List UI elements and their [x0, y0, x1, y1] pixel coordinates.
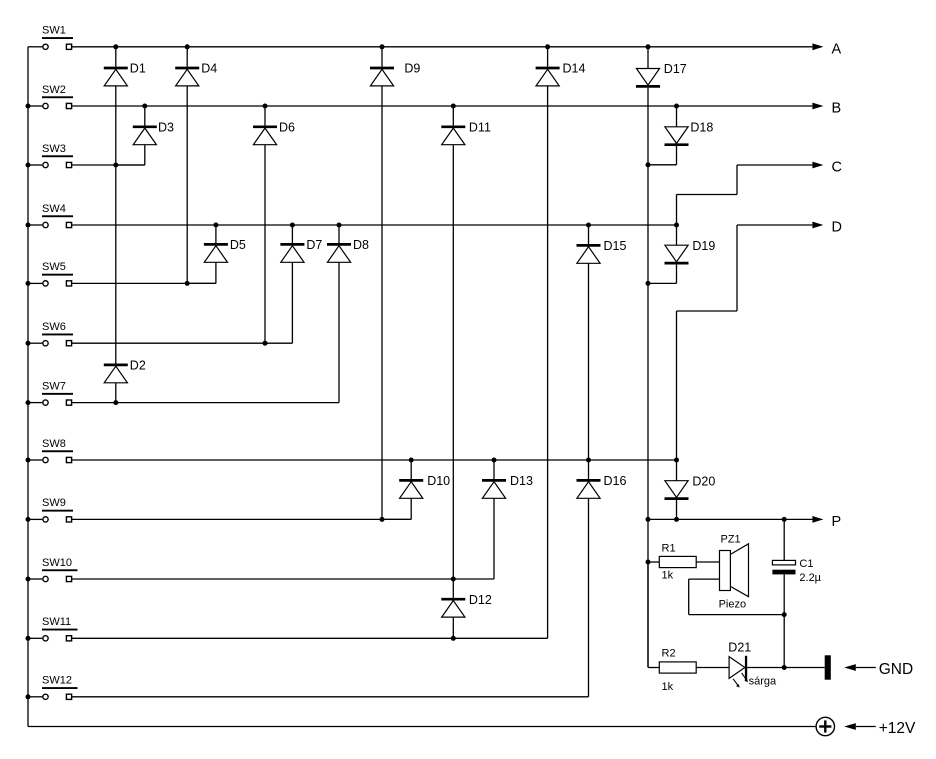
label D16 — [604, 474, 627, 488]
junction P column / R1 — [646, 560, 651, 565]
svg-text:D8: D8 — [353, 238, 369, 252]
label D15 — [604, 239, 627, 253]
svg-text:SW4: SW4 — [42, 203, 66, 215]
junction SW11 row / D12 anode / D14 — [451, 636, 456, 641]
diode D7 — [280, 225, 304, 343]
svg-text:SW7: SW7 — [42, 380, 66, 392]
node B output arrow — [812, 103, 823, 110]
LED D21 — [729, 656, 825, 688]
wire row SW4 (to D19 node) — [72, 224, 677, 226]
junction net P / C1 — [782, 517, 787, 522]
junction net P / D20 cathode — [674, 517, 679, 522]
junction row B / D18 — [674, 104, 679, 109]
svg-text:D4: D4 — [201, 62, 217, 76]
svg-text:A: A — [832, 41, 842, 57]
svg-text:D9: D9 — [404, 62, 420, 76]
junction bus / SW2 — [26, 104, 31, 109]
label D4 — [201, 62, 217, 76]
junction SW8 row / D15-D16 — [586, 458, 591, 463]
junction bus / SW8 — [26, 458, 31, 463]
node C output arrow — [812, 162, 823, 169]
label D2 — [130, 359, 146, 373]
label D11 — [469, 121, 491, 135]
svg-text:C1: C1 — [799, 558, 813, 570]
svg-text:D2: D2 — [130, 359, 146, 373]
resistor R1 — [648, 556, 720, 567]
diode D16 — [577, 460, 601, 697]
svg-text:D17: D17 — [664, 62, 687, 76]
label D20 — [692, 474, 715, 488]
svg-text:SW9: SW9 — [42, 497, 66, 509]
wire row SW5 — [72, 282, 216, 284]
junction SW4 row / D7 — [290, 223, 295, 228]
junction row B / D11 — [451, 104, 456, 109]
junction bus / SW3 — [26, 163, 31, 168]
junction SW5 row / D4-D5 anodes — [185, 281, 190, 286]
svg-text:2.2µ: 2.2µ — [799, 572, 821, 584]
svg-text:D14: D14 — [563, 62, 586, 76]
switch SW3 — [28, 162, 72, 167]
wire row SW11 — [72, 637, 548, 639]
node D output arrow — [812, 222, 823, 229]
wire PZ1 bottom terminal to C1 column — [689, 579, 785, 615]
label R2 — [662, 647, 676, 659]
junction bus / SW4 — [26, 223, 31, 228]
svg-text:SW11: SW11 — [42, 616, 71, 628]
switch SW8 — [28, 457, 72, 462]
svg-text:GND: GND — [879, 661, 913, 678]
diode D6 — [253, 106, 277, 343]
svg-text:D15: D15 — [604, 239, 627, 253]
label D12 — [469, 593, 492, 607]
junction SW4 row / D8 — [337, 223, 342, 228]
label C1 — [799, 558, 813, 570]
diode D14 — [536, 47, 560, 639]
label SW5 — [42, 261, 73, 275]
junction bus / SW5 — [26, 281, 31, 286]
label D7 — [306, 238, 322, 252]
svg-text:SW10: SW10 — [42, 557, 72, 569]
switch SW4 — [28, 222, 72, 227]
junction row A / D1 — [113, 44, 118, 49]
junction row B / D6 — [263, 104, 268, 109]
svg-text:D20: D20 — [692, 474, 715, 488]
junction SW7 row / D2 anode — [113, 400, 118, 405]
diode D4 — [175, 47, 199, 284]
label PZ1 — [721, 534, 741, 546]
svg-text:SW1: SW1 — [42, 25, 66, 37]
label SW2 — [42, 84, 73, 98]
diode D8 — [327, 225, 351, 403]
diode D10 — [382, 460, 423, 519]
label node B — [832, 101, 842, 117]
label R1 — [662, 542, 676, 554]
junction SW9 row / D9-D10 anodes — [380, 517, 385, 522]
label R1 value 1k — [662, 570, 674, 582]
switch SW12 — [28, 694, 72, 699]
svg-text:D: D — [832, 220, 842, 236]
svg-text:1k: 1k — [662, 681, 674, 693]
diode D20 — [665, 460, 689, 519]
junction bus / SW10 — [26, 577, 31, 582]
label D17 — [664, 62, 687, 76]
junction SW4 row / D19 / net C — [674, 223, 679, 228]
wire row SW6 — [72, 342, 293, 344]
label D14 — [563, 62, 586, 76]
switch SW1 — [28, 44, 72, 49]
diode D12 — [441, 579, 465, 638]
junction bus / SW6 — [26, 341, 31, 346]
junction P column / D19 cathode — [646, 281, 651, 286]
wire row SW9 left segment — [72, 518, 411, 520]
label SW7 — [42, 380, 73, 394]
svg-text:D19: D19 — [692, 239, 715, 253]
diode D19 — [648, 225, 689, 283]
junction row A / D4 — [185, 44, 190, 49]
junction net P / P column — [646, 517, 651, 522]
svg-text:R1: R1 — [662, 542, 676, 554]
junction SW8 row / D13 — [492, 458, 497, 463]
label D5 — [230, 238, 246, 252]
wire +12V bottom rail — [28, 726, 816, 728]
diode D11 — [441, 106, 465, 579]
junction C1 column / PZ1 return — [782, 612, 787, 617]
label node D — [832, 220, 842, 236]
switch SW10 — [28, 576, 72, 581]
label SW10 — [42, 557, 78, 571]
capacitor C1 — [772, 519, 795, 667]
diode D9 — [370, 47, 394, 520]
junction GND wire / C1 column — [782, 665, 787, 670]
wire net D (row D to output D) — [677, 225, 813, 460]
wire left bus vertical (+12V bus to all switches) — [27, 47, 29, 727]
junction SW3 row / D1-D2 / D3 — [113, 163, 118, 168]
svg-text:Piezo: Piezo — [719, 599, 747, 611]
label D3 — [158, 121, 174, 135]
svg-text:+12V: +12V — [879, 720, 916, 737]
svg-text:D3: D3 — [158, 121, 174, 135]
wire row SW12 — [72, 696, 589, 698]
label C1 value 2.2&#181; — [799, 572, 821, 584]
junction P column / D18 cathode — [646, 162, 651, 167]
GND arrow — [844, 664, 876, 671]
piezo buzzer PZ1 — [720, 544, 749, 597]
diode D5 — [187, 225, 228, 283]
switch SW2 — [28, 103, 72, 108]
svg-text:P: P — [832, 514, 842, 530]
svg-text:D12: D12 — [469, 593, 492, 607]
switch SW7 — [28, 400, 72, 405]
svg-text:SW5: SW5 — [42, 261, 66, 273]
svg-text:1k: 1k — [662, 570, 674, 582]
svg-text:D6: D6 — [279, 121, 295, 135]
ground GND bar — [825, 655, 831, 679]
svg-text:SW2: SW2 — [42, 84, 66, 96]
junction SW8 row / D10 — [409, 458, 414, 463]
label D18 — [690, 121, 713, 135]
svg-text:D7: D7 — [306, 238, 322, 252]
svg-text:R2: R2 — [662, 647, 676, 659]
label SW11 — [42, 616, 78, 630]
label D13 — [510, 474, 533, 488]
wire net P (to output P) — [648, 518, 812, 520]
svg-text:D10: D10 — [427, 474, 450, 488]
junction SW10 row / D11-D12-D13 — [451, 577, 456, 582]
wire row B (SW2 to output B) — [72, 105, 813, 107]
label D1 — [130, 62, 146, 76]
label SW3 — [42, 143, 73, 157]
diode D1 — [104, 47, 128, 165]
junction SW8 row / D20 / net D — [674, 458, 679, 463]
junction SW4 row / D15 — [586, 223, 591, 228]
wire row SW8 (to D20 node) — [72, 459, 677, 461]
label SW8 — [42, 438, 73, 452]
svg-text:SW8: SW8 — [42, 438, 66, 450]
svg-text:PZ1: PZ1 — [721, 534, 741, 546]
diode D13 — [482, 460, 506, 579]
label Piezo — [719, 599, 747, 611]
resistor R2 — [648, 562, 729, 673]
wire row SW10 — [72, 578, 494, 580]
label R2 value 1k — [662, 681, 674, 693]
junction row A / D9 — [380, 44, 385, 49]
svg-text:sárga: sárga — [749, 675, 777, 687]
switch SW6 — [28, 341, 72, 346]
svg-text:SW12: SW12 — [42, 675, 72, 687]
label +12V — [879, 720, 916, 737]
junction SW6 row / D6 anode — [263, 341, 268, 346]
label D10 — [427, 474, 450, 488]
wire row SW7 — [72, 402, 339, 404]
node A output arrow — [812, 43, 823, 50]
svg-text:D5: D5 — [230, 238, 246, 252]
+12V arrow — [844, 723, 876, 730]
label GND — [879, 661, 913, 678]
label D9 — [404, 62, 420, 76]
label node A — [832, 41, 842, 57]
wire net C (row C to output C) — [677, 165, 813, 225]
junction row B / D3 — [142, 104, 147, 109]
wire row A (SW1 to output A) — [72, 46, 813, 48]
switch SW11 — [28, 636, 72, 641]
junction bus / SW7 — [26, 400, 31, 405]
+12V terminal symbol — [816, 717, 834, 735]
svg-text:D18: D18 — [690, 121, 713, 135]
junction bus / SW9 — [26, 517, 31, 522]
svg-text:D1: D1 — [130, 62, 146, 76]
junction row A / D14 — [545, 44, 550, 49]
svg-text:D11: D11 — [469, 121, 491, 135]
label node C — [832, 160, 842, 176]
label D21 colour s&#225;rga — [749, 675, 777, 687]
switch SW5 — [28, 281, 72, 286]
label SW6 — [42, 321, 73, 335]
label SW12 — [42, 675, 78, 689]
svg-text:C: C — [832, 160, 842, 176]
label node P — [832, 514, 842, 530]
diode D18 — [648, 106, 689, 165]
diode D2 — [104, 165, 128, 403]
svg-text:SW6: SW6 — [42, 321, 66, 333]
node P output arrow — [812, 516, 823, 523]
svg-text:D13: D13 — [510, 474, 533, 488]
label SW1 — [42, 25, 73, 39]
switch SW9 — [28, 517, 72, 522]
svg-text:B: B — [832, 101, 842, 117]
label D19 — [692, 239, 715, 253]
label SW9 — [42, 497, 73, 511]
junction row A / D17 — [646, 44, 651, 49]
junction bus / SW11 — [26, 636, 31, 641]
diode D15 — [577, 225, 601, 460]
label D6 — [279, 121, 295, 135]
svg-text:D21: D21 — [728, 641, 751, 655]
junction SW4 row / D5 — [213, 223, 218, 228]
junction bus / SW12 — [26, 694, 31, 699]
label SW4 — [42, 203, 73, 217]
label D8 — [353, 238, 369, 252]
wire row SW3 — [72, 164, 145, 166]
svg-text:SW3: SW3 — [42, 143, 66, 155]
diode D17 — [636, 47, 660, 668]
svg-text:D16: D16 — [604, 474, 627, 488]
label D21 — [728, 641, 751, 655]
diode D3 — [116, 106, 157, 165]
